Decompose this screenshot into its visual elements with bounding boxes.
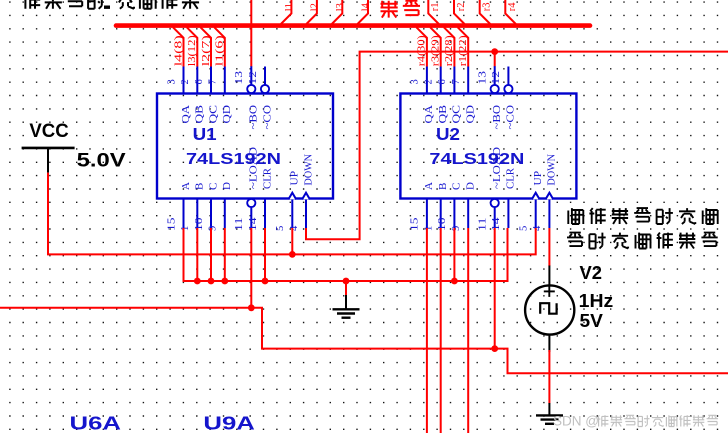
svg-text:r3: r3	[482, 3, 493, 12]
svg-text:l3(12): l3(12)	[187, 35, 198, 67]
bus 总线	[116, 23, 590, 28]
wire U2 ~BO drop	[494, 52, 496, 67]
svg-text:l2(7): l2(7)	[201, 35, 212, 67]
wire r3(29) bus entry to U2	[430, 27, 441, 66]
bus entry net r3	[480, 0, 491, 24]
svg-text:4: 4	[289, 225, 300, 231]
wire U2 data input to bottom edge	[426, 228, 428, 433]
pin stub U1 CLR	[264, 199, 266, 229]
svg-text:10: 10	[194, 218, 205, 232]
svg-text:6: 6	[194, 79, 205, 84]
bus entry net l4	[358, 0, 369, 24]
junction U1 ~LOAD on load rail	[248, 304, 255, 311]
wire U1 ~BO up across bus to top edge	[250, 0, 252, 66]
svg-text:r1(22): r1(22)	[458, 35, 469, 67]
svg-text:~CO: ~CO	[261, 105, 273, 130]
junction U1 UP on VCC rail	[289, 251, 296, 258]
svg-text:2: 2	[180, 79, 191, 84]
wire carry: U1 DOWN to U2 ~BO and right edge	[306, 52, 728, 240]
svg-text:B: B	[437, 183, 449, 190]
pin stub U2 A	[426, 199, 428, 229]
wire VCC to UP rail	[48, 173, 536, 255]
svg-text:UP: UP	[532, 171, 544, 186]
pin stub U1 DOWN with clock wedge	[305, 199, 307, 229]
svg-text:15: 15	[410, 218, 421, 232]
bus entry net l3	[332, 0, 343, 24]
junction at carry line / U2 ~BO	[491, 48, 498, 55]
ground GND2	[548, 403, 550, 415]
svg-text:9: 9	[451, 226, 462, 231]
svg-text:5: 5	[275, 226, 286, 231]
svg-text:12: 12	[248, 71, 259, 85]
pin stub U2 DOWN with clock wedge	[548, 199, 550, 229]
power VCC symbol	[22, 147, 75, 150]
svg-text:QB: QB	[194, 105, 206, 124]
svg-text:5.0V: 5.0V	[77, 151, 126, 172]
annotation 倒计数端充当时	[568, 208, 583, 224]
svg-text:QC: QC	[451, 105, 463, 124]
pin stub U2 QD	[467, 67, 469, 94]
svg-text:5: 5	[519, 226, 530, 231]
pin stub U1 ~LOAD with bubble	[250, 207, 252, 228]
svg-text:QC: QC	[207, 105, 219, 124]
wire drop to ground rail	[264, 228, 266, 281]
junction on ground rail	[221, 278, 228, 285]
wire l3(12) bus entry to U1	[187, 27, 198, 66]
wire drop to ground rail	[224, 228, 226, 281]
svg-text:C: C	[207, 183, 219, 190]
svg-text:2: 2	[424, 79, 435, 84]
pin stub U2 QC	[453, 67, 455, 94]
pin stub U2 D	[467, 199, 469, 229]
pin stub U2 ~BO with bubble	[494, 66, 496, 94]
svg-text:l3: l3	[335, 3, 346, 11]
svg-text:14: 14	[248, 217, 259, 231]
svg-text:QB: QB	[437, 105, 449, 124]
pin stub U1 QD	[224, 67, 226, 94]
wire drop to ground rail	[210, 228, 212, 281]
svg-text:DOWN: DOWN	[302, 154, 314, 186]
pin stub U2 ~LOAD with bubble	[494, 207, 496, 228]
svg-text:r4: r4	[507, 2, 518, 11]
svg-text:9: 9	[208, 226, 219, 231]
bus entry net r2	[454, 0, 465, 24]
wire U1 UP drop	[291, 228, 293, 254]
svg-text:r1: r1	[430, 3, 441, 12]
pin stub U1 B	[196, 199, 198, 229]
wire V2 to ground	[548, 350, 550, 404]
wire U2 C drop to ground rail	[453, 228, 455, 281]
label 总线 (bus name)	[381, 1, 398, 18]
svg-text:1Hz: 1Hz	[579, 291, 614, 311]
pin stub U2 QA	[426, 67, 428, 94]
wire l1(6) bus entry to U1	[214, 27, 225, 66]
svg-text:D: D	[221, 182, 233, 190]
svg-text:1: 1	[180, 226, 191, 231]
pin stub U2 QB	[440, 67, 442, 94]
svg-text:A: A	[423, 182, 435, 190]
svg-text:~BO: ~BO	[248, 105, 260, 130]
wire l2(7) bus entry to U1	[201, 27, 212, 66]
wire drop to ground rail	[196, 228, 198, 281]
svg-text:3: 3	[410, 79, 421, 84]
svg-text:6: 6	[437, 79, 448, 84]
svg-text:12: 12	[491, 71, 502, 85]
pin stub U2 C	[453, 199, 455, 229]
pin stub U2 CLR	[507, 199, 509, 229]
wire r2(28) bus entry to U2	[444, 27, 455, 66]
svg-text:5V: 5V	[580, 311, 603, 331]
wire U1 ~LOAD down to load rail	[250, 228, 252, 308]
pin stub U1 QA	[183, 67, 185, 94]
svg-text:V2: V2	[580, 263, 603, 283]
junction on ground rail	[208, 278, 215, 285]
svg-text:r3(29): r3(29)	[431, 35, 442, 67]
junction U2 ~LOAD on load rail	[491, 345, 498, 352]
svg-text:U9A: U9A	[203, 414, 255, 433]
annotation top (clipped chinese text)	[23, 0, 40, 9]
pin stub U1 UP with clock wedge	[291, 199, 293, 229]
svg-text:l4(8): l4(8)	[173, 35, 184, 67]
pin stub U1 D	[224, 199, 226, 229]
bus entry net r1	[428, 0, 439, 24]
svg-text:r4(30): r4(30)	[417, 35, 428, 67]
junction ground tap	[343, 278, 350, 285]
bus entry net r4	[505, 0, 516, 24]
svg-text:4: 4	[532, 225, 543, 231]
svg-text:r2: r2	[456, 3, 467, 12]
svg-text:U1: U1	[193, 124, 217, 144]
svg-text:7: 7	[208, 79, 219, 84]
svg-text:11: 11	[234, 218, 245, 232]
svg-text:l4: l4	[361, 2, 372, 11]
svg-text:U2: U2	[436, 124, 460, 144]
svg-text:B: B	[194, 183, 206, 190]
wire U2 data input to bottom edge	[440, 228, 442, 433]
svg-text:l2: l2	[310, 3, 321, 11]
svg-text:1: 1	[424, 226, 435, 231]
wire r4(30) bus entry to U2	[416, 27, 427, 66]
svg-text:13: 13	[478, 71, 489, 85]
junction on ground rail	[262, 278, 269, 285]
pin stub U1 C	[210, 199, 212, 229]
svg-text:DOWN: DOWN	[546, 154, 558, 186]
junction on ground rail	[194, 278, 201, 285]
wire U2 ~LOAD down to load rail	[494, 228, 496, 349]
pin stub U1 A	[183, 199, 185, 229]
ground GND1	[345, 295, 347, 309]
wire ground tap	[345, 281, 347, 296]
pin stub U1 QC	[210, 67, 212, 94]
pin stub U1 QB	[196, 67, 198, 94]
svg-text:VCC: VCC	[29, 121, 69, 142]
IC U2 74LS192N box	[400, 94, 576, 199]
svg-text:QA: QA	[180, 105, 192, 124]
svg-text:15: 15	[166, 218, 177, 232]
svg-text:13: 13	[234, 71, 245, 85]
svg-text:3: 3	[166, 79, 177, 84]
pin stub U1 ~CO with bubble	[264, 67, 266, 86]
wire ground rail: U1 A down and across to U2 CLR	[184, 228, 508, 281]
svg-text:10: 10	[437, 218, 448, 232]
annotation 钟信号的输入端	[567, 233, 583, 247]
svg-text:QD: QD	[221, 105, 233, 124]
svg-text:UP: UP	[289, 171, 301, 186]
svg-text:QD: QD	[465, 105, 477, 124]
wire load rail from left edge, steps to right edge	[0, 308, 728, 374]
svg-text:r2(28): r2(28)	[444, 35, 455, 67]
IC U1 74LS192N box	[157, 94, 333, 199]
source V2 clock	[548, 266, 550, 285]
svg-text:14: 14	[491, 217, 502, 231]
svg-text:D: D	[465, 182, 477, 190]
pin stub U1 ~BO with bubble	[250, 66, 252, 94]
svg-text:A: A	[180, 182, 192, 190]
svg-text:CLR: CLR	[505, 167, 517, 189]
svg-text:~CO: ~CO	[505, 105, 517, 130]
wire U2 data input to bottom edge	[467, 228, 469, 433]
bus entry net l1	[281, 0, 292, 24]
wire r1(22) bus entry to U2	[458, 27, 469, 66]
svg-text:74LS192N: 74LS192N	[186, 151, 281, 168]
svg-text:CLR: CLR	[261, 167, 273, 189]
bus entry net l2	[306, 0, 317, 24]
svg-text:7: 7	[451, 79, 462, 84]
pin stub U2 B	[440, 199, 442, 229]
wire U2 DOWN to V2	[548, 228, 550, 266]
pin stub U2 UP with clock wedge	[535, 199, 537, 229]
svg-text:11: 11	[478, 218, 489, 232]
svg-text:l1: l1	[284, 3, 295, 11]
svg-text:74LS192N: 74LS192N	[429, 151, 524, 168]
svg-text:U6A: U6A	[70, 414, 122, 433]
svg-text:SDN @: SDN @	[553, 414, 599, 429]
svg-text:l1(6): l1(6)	[215, 35, 226, 67]
svg-text:C: C	[451, 183, 463, 190]
svg-text:~BO: ~BO	[491, 105, 503, 130]
pin stub U2 ~CO with bubble	[507, 67, 509, 86]
junction U2 C on ground rail	[451, 278, 458, 285]
svg-text:QA: QA	[423, 105, 435, 124]
wire l4(8) bus entry to U1	[173, 27, 184, 66]
